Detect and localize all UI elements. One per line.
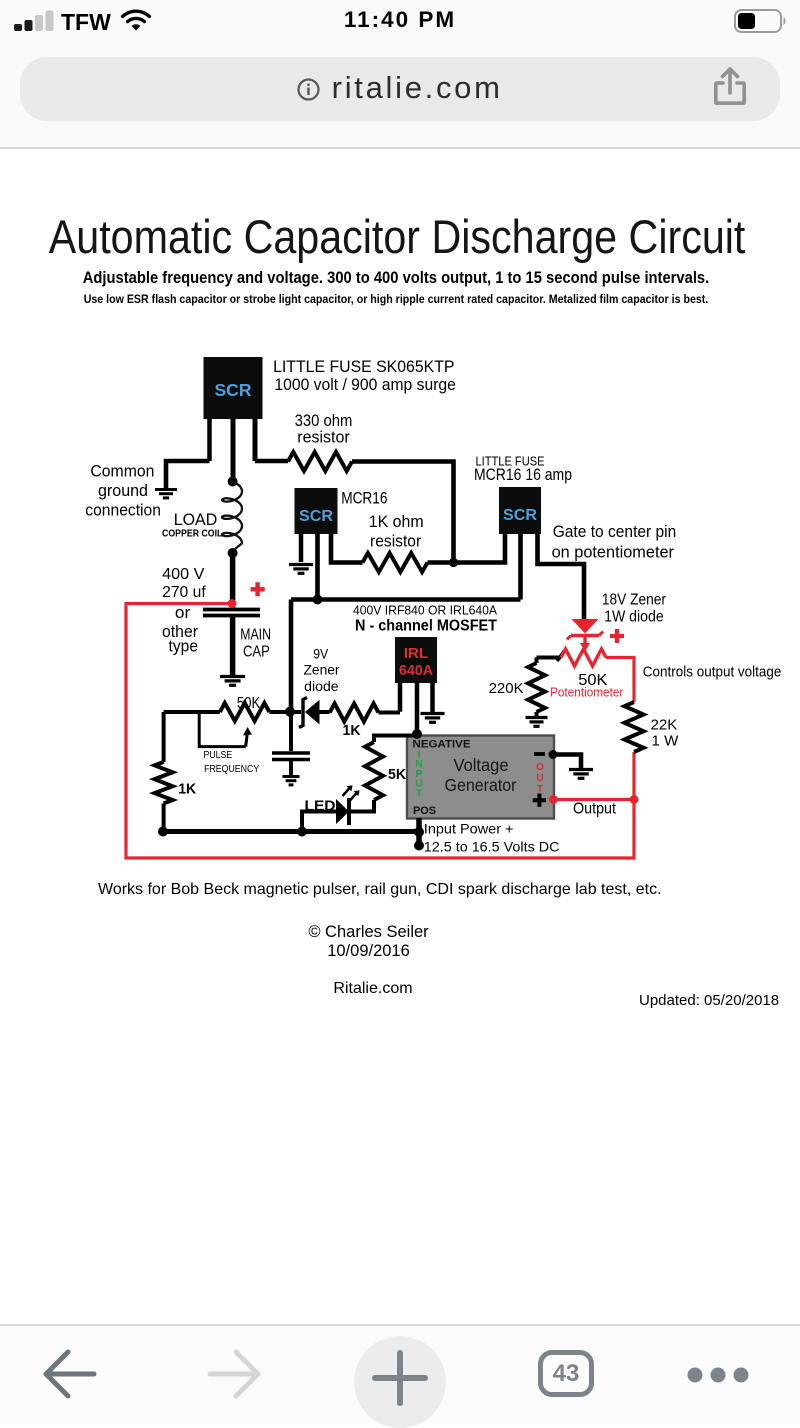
svg-text:Controls output voltage: Controls output voltage	[643, 665, 782, 681]
svg-text:IRL: IRL	[404, 645, 428, 662]
svg-text:type: type	[169, 637, 199, 656]
svg-text:400V IRF840 OR IRL640A: 400V IRF840 OR IRL640A	[353, 603, 497, 618]
svg-text:1 W: 1 W	[652, 734, 679, 750]
svg-text:COPPER COIL: COPPER COIL	[162, 528, 223, 540]
svg-text:resistor: resistor	[370, 532, 422, 551]
svg-text:Zener: Zener	[304, 662, 340, 678]
svg-text:U: U	[536, 773, 543, 784]
svg-text:Gate to center pin: Gate to center pin	[553, 523, 677, 541]
svg-text:12.5 to 16.5 Volts DC: 12.5 to 16.5 Volts DC	[424, 839, 560, 855]
svg-text:MCR16 16 amp: MCR16 16 amp	[474, 466, 572, 484]
svg-text:or: or	[175, 603, 191, 622]
svg-text:640A: 640A	[399, 662, 433, 679]
svg-text:Common: Common	[90, 463, 154, 481]
svg-text:5K: 5K	[388, 766, 406, 783]
svg-text:N - channel MOSFET: N - channel MOSFET	[355, 618, 497, 635]
svg-text:CAP: CAP	[243, 643, 270, 660]
svg-text:Input Power +: Input Power +	[424, 821, 514, 837]
svg-text:MAIN: MAIN	[240, 627, 271, 644]
svg-text:on potentiometer: on potentiometer	[552, 544, 675, 562]
svg-text:O: O	[536, 762, 544, 773]
svg-text:1K: 1K	[343, 722, 361, 739]
svg-text:1K ohm: 1K ohm	[369, 512, 424, 531]
svg-text:SCR: SCR	[215, 380, 252, 400]
svg-text:9V: 9V	[313, 646, 329, 662]
svg-text:220K: 220K	[489, 680, 524, 697]
svg-text:1K: 1K	[178, 781, 196, 798]
svg-text:SCR: SCR	[299, 508, 333, 525]
svg-text:400 V: 400 V	[162, 566, 205, 583]
svg-text:Output: Output	[573, 801, 617, 818]
svg-text:POS: POS	[413, 805, 436, 817]
svg-text:1W diode: 1W diode	[604, 609, 664, 626]
svg-text:T: T	[416, 787, 423, 799]
svg-text:LOAD: LOAD	[174, 510, 218, 529]
svg-text:T: T	[537, 784, 543, 795]
svg-text:FREQUENCY: FREQUENCY	[204, 763, 259, 775]
svg-text:resistor: resistor	[297, 428, 350, 447]
svg-text:1000 volt / 900 amp surge: 1000 volt / 900 amp surge	[274, 376, 456, 394]
svg-text:ground: ground	[98, 482, 148, 500]
svg-text:NEGATIVE: NEGATIVE	[413, 739, 471, 751]
svg-text:18V Zener: 18V Zener	[602, 592, 666, 609]
svg-text:diode: diode	[304, 678, 339, 694]
svg-text:22K: 22K	[651, 718, 678, 734]
svg-text:Potentiometer: Potentiometer	[550, 685, 623, 699]
svg-text:LED: LED	[305, 799, 336, 815]
svg-text:LITTLE FUSE SK065KTP: LITTLE FUSE SK065KTP	[273, 358, 454, 376]
svg-text:Voltage: Voltage	[454, 755, 509, 775]
svg-text:PULSE: PULSE	[204, 749, 233, 761]
svg-text:50K: 50K	[237, 695, 261, 712]
svg-text:270 uf: 270 uf	[162, 584, 206, 601]
svg-text:MCR16: MCR16	[341, 490, 387, 508]
svg-text:connection: connection	[85, 501, 161, 519]
svg-text:SCR: SCR	[503, 507, 537, 524]
svg-text:Generator: Generator	[445, 775, 517, 795]
